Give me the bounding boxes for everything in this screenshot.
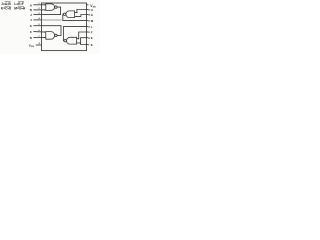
pin 11 F stub <box>87 30 93 34</box>
svg-text:L=E•F: L=E•F <box>14 2 23 6</box>
wire pin 9 E joining U1D input <box>81 43 87 45</box>
svg-text:J: J <box>30 13 32 17</box>
pin 7 D wire <box>30 36 46 40</box>
svg-text:J=A•B: J=A•B <box>1 2 11 6</box>
svg-text:A: A <box>30 3 33 7</box>
svg-text:E: E <box>91 36 93 40</box>
junction dot pin1 <box>44 4 45 5</box>
equation K=C·D <box>1 6 12 10</box>
svg-text:C: C <box>30 30 33 34</box>
equation J=A·B <box>1 2 11 6</box>
wire U1B output to pin 5 <box>42 26 62 36</box>
junction dot pin2 <box>44 9 45 10</box>
pin 4 J wire <box>30 17 42 22</box>
pin 15 H stub <box>87 8 93 12</box>
package outline U1 <box>42 3 87 51</box>
svg-text:DD: DD <box>93 7 97 9</box>
svg-text:K=C•D: K=C•D <box>1 7 12 11</box>
wire U1C output to pin 13 <box>63 14 87 20</box>
pin 9 E stub <box>87 43 93 47</box>
nand gate U1A <box>46 4 57 11</box>
svg-text:M=G•H: M=G•H <box>14 7 26 11</box>
wire U1D output to pin 12 <box>63 27 86 41</box>
svg-text:M: M <box>91 19 94 23</box>
svg-text:G: G <box>91 13 94 17</box>
pin 12 L stub <box>87 25 93 29</box>
svg-text:L: L <box>91 25 93 29</box>
svg-text:9: 9 <box>88 45 90 47</box>
nand gate U1C <box>63 11 74 18</box>
pin 3 J wire <box>30 13 42 17</box>
junction dot U1C input a <box>76 12 77 13</box>
wire pin 11 F to U1D input <box>77 32 87 39</box>
pin 16 VDD stub <box>87 4 97 9</box>
wire pin 4 rail <box>42 19 62 21</box>
wire pin 14 G to U1C input <box>75 15 87 17</box>
svg-text:K: K <box>30 24 33 28</box>
svg-text:SS: SS <box>31 46 34 48</box>
pin 5 K wire <box>30 24 42 28</box>
wire U1A output to pin 3 <box>42 7 61 15</box>
pin 14 G stub <box>87 13 94 17</box>
svg-text:F: F <box>91 30 93 34</box>
pin 2 B wire <box>30 8 46 12</box>
pin 6 C wire <box>30 30 46 34</box>
wire pin 10 E to U1D input <box>77 38 87 43</box>
junction dot pin7 <box>44 37 45 38</box>
wire pin 15 H to U1C input <box>75 10 87 13</box>
nand gate U1D <box>64 37 77 44</box>
junction dot pin6 <box>44 32 45 33</box>
pin 13 M stub <box>87 19 94 23</box>
pin 10 E stub <box>87 36 93 40</box>
equation L=E·F <box>14 2 24 6</box>
nand gate U1B <box>46 32 57 40</box>
svg-text:E: E <box>91 43 93 47</box>
junction dot U1D input b <box>80 42 81 43</box>
svg-text:B: B <box>30 8 33 12</box>
pin 1 A wire <box>30 3 46 7</box>
pin 8 VSS wire <box>29 43 42 48</box>
svg-text:H: H <box>91 8 93 12</box>
junction dot U1C input b <box>76 16 77 17</box>
equation M=G·H <box>14 6 26 10</box>
svg-text:D: D <box>30 36 33 40</box>
junction dot U1D input a <box>78 38 79 39</box>
svg-text:J: J <box>30 18 32 22</box>
